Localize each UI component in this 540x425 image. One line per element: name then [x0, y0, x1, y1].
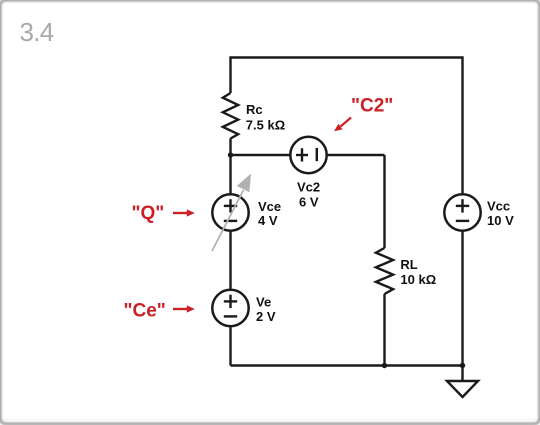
svg-text:4 V: 4 V: [258, 213, 278, 228]
svg-text:Vce: Vce: [258, 199, 281, 214]
svg-text:7.5 kΩ: 7.5 kΩ: [246, 118, 285, 133]
svg-text:Vcc: Vcc: [487, 199, 510, 214]
svg-text:"Q": "Q": [132, 203, 165, 224]
svg-text:RL: RL: [400, 257, 417, 272]
svg-text:Ve: Ve: [256, 295, 271, 310]
svg-text:"C2": "C2": [351, 96, 393, 117]
svg-text:2 V: 2 V: [256, 309, 276, 324]
svg-text:Vc2: Vc2: [297, 179, 320, 194]
svg-text:"Ce": "Ce": [124, 300, 166, 321]
svg-text:10 kΩ: 10 kΩ: [400, 272, 436, 287]
svg-text:6 V: 6 V: [299, 194, 319, 209]
svg-text:Rc: Rc: [246, 102, 263, 117]
svg-text:10 V: 10 V: [487, 213, 514, 228]
svg-text:3.4: 3.4: [20, 17, 54, 47]
